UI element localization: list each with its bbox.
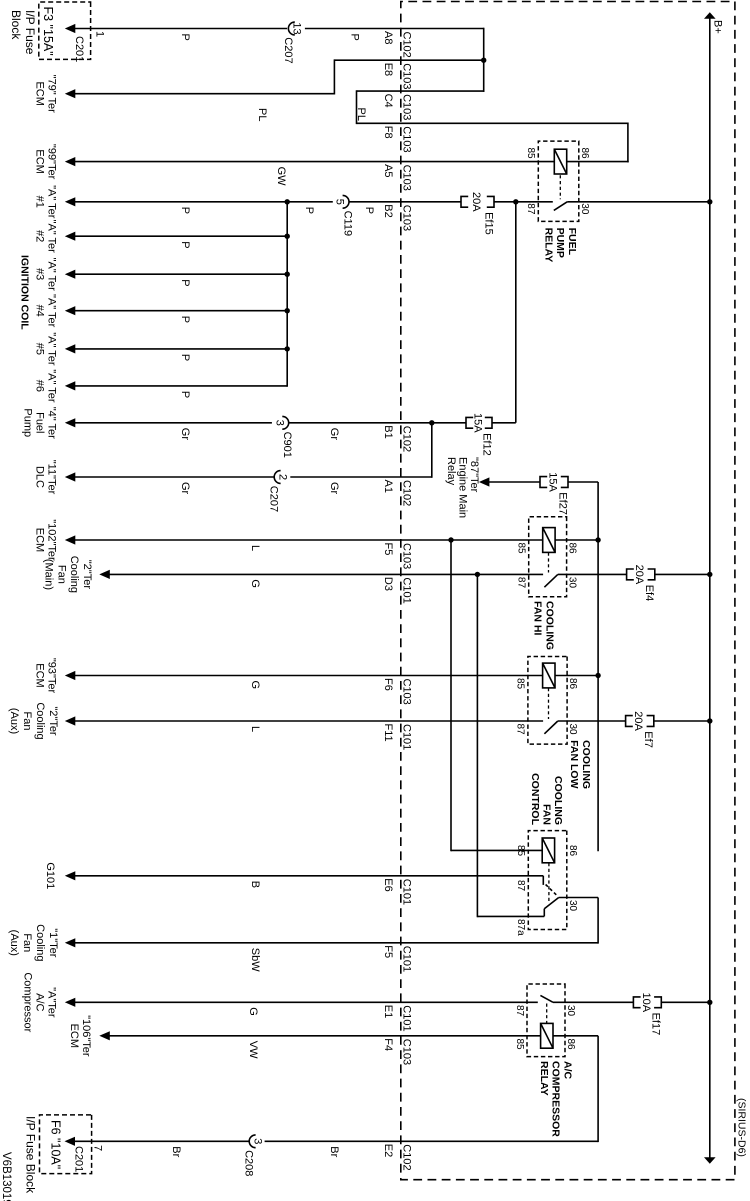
svg-text:V6B13019: V6B13019 xyxy=(0,1152,12,1201)
svg-text:VW: VW xyxy=(247,1041,259,1059)
crossing C102 pin B1 xyxy=(382,425,413,452)
svg-text:P: P xyxy=(303,207,315,214)
svg-text:P: P xyxy=(179,241,191,248)
svg-text:I/P Fuse Block: I/P Fuse Block xyxy=(24,1116,38,1194)
svg-text:"79" Ter: "79" Ter xyxy=(45,75,57,114)
svg-text:P: P xyxy=(179,279,191,286)
svg-text:#6: #6 xyxy=(34,380,46,392)
svg-text:C103: C103 xyxy=(400,205,412,231)
label FUEL PUMP RELAY xyxy=(542,228,578,263)
svg-text:13: 13 xyxy=(291,22,303,34)
wire P to ignition coil 6 xyxy=(74,385,288,387)
label "79" Ter ECM xyxy=(34,75,58,114)
label "102"Ter ECM xyxy=(34,519,58,561)
svg-text:Fan: Fan xyxy=(21,712,33,731)
label "99"Ter ECM xyxy=(34,144,58,180)
svg-text:C208: C208 xyxy=(243,1150,255,1176)
fuse Ef27 15A xyxy=(540,472,568,515)
svg-text:#5: #5 xyxy=(34,343,46,355)
svg-text:Gr: Gr xyxy=(328,482,340,495)
svg-text:D3: D3 xyxy=(382,577,394,591)
svg-text:G: G xyxy=(249,579,261,588)
svg-text:C101: C101 xyxy=(400,1005,412,1031)
svg-text:E8: E8 xyxy=(382,63,394,76)
a/c compressor relay dashed box xyxy=(527,984,565,1057)
label "87"Ter Engine Main Relay xyxy=(445,457,480,518)
wire P to ignition coil 4 xyxy=(74,310,288,312)
a/c relay coil-switch dashed link xyxy=(546,1004,548,1024)
cooling fan hi relay coil xyxy=(543,528,555,553)
svg-text:87: 87 xyxy=(516,577,527,589)
crossing C103 pin E8 xyxy=(382,63,413,90)
page border (dashed) xyxy=(401,2,735,1180)
svg-text:B2: B2 xyxy=(382,204,394,217)
cooling fan hi switch blade and 30 wire xyxy=(544,574,709,587)
svg-text:87: 87 xyxy=(525,203,536,215)
svg-text:F6: F6 xyxy=(382,678,394,691)
svg-text:85: 85 xyxy=(525,147,536,159)
svg-text:E2: E2 xyxy=(382,1144,394,1157)
svg-text:"A" Ter: "A" Ter xyxy=(45,294,57,328)
arrow to aux cooling fan terminal 1 xyxy=(65,938,76,947)
label COOLING FAN CONTROL xyxy=(529,773,564,825)
svg-text:85: 85 xyxy=(514,1039,525,1051)
junction dot net1/ECM79 xyxy=(481,58,486,63)
svg-text:L: L xyxy=(249,545,261,551)
svg-text:PL: PL xyxy=(256,108,268,121)
cooling fan control 87a wire to fan hi 87 branch xyxy=(477,574,544,917)
svg-text:30: 30 xyxy=(579,203,590,215)
svg-text:E6: E6 xyxy=(382,878,394,891)
svg-text:C102: C102 xyxy=(400,480,412,506)
junction dot relay 87 / fuel pump branch xyxy=(513,199,518,204)
svg-text:P: P xyxy=(179,316,191,323)
svg-text:(Aux): (Aux) xyxy=(8,708,20,734)
label "4" Ter Fuel Pump xyxy=(22,407,58,439)
svg-text:F5: F5 xyxy=(382,543,394,556)
wire G from fan hi 87 to main cooling fan xyxy=(108,573,543,575)
svg-text:(SIRIUS-D6): (SIRIUS-D6) xyxy=(736,1098,748,1157)
svg-text:CONTROL: CONTROL xyxy=(529,773,541,825)
svg-text:Pump: Pump xyxy=(22,408,34,437)
wire Gr from relay 87 junction to fuel pump xyxy=(74,202,516,423)
I/P fuse block F6 dashed box xyxy=(40,1115,92,1174)
svg-text:G: G xyxy=(247,1007,259,1016)
svg-text:"93"Ter: "93"Ter xyxy=(45,658,57,694)
svg-text:F5: F5 xyxy=(382,945,394,958)
junction dot ignition bus 3 xyxy=(285,272,290,277)
arrow to DLC terminal 11 xyxy=(65,472,76,481)
svg-text:Ef7: Ef7 xyxy=(642,731,654,748)
svg-text:C119: C119 xyxy=(342,211,354,236)
svg-text:15A: 15A xyxy=(472,413,484,433)
svg-text:RELAY: RELAY xyxy=(542,228,554,263)
cooling fan hi coil-switch dashed link xyxy=(548,553,550,573)
arrow to ECM terminal 102 xyxy=(65,535,76,544)
fuse Ef17 10A xyxy=(633,993,661,1036)
arrow to ignition coil 3 xyxy=(65,270,76,279)
crossing C103 pin F6 xyxy=(382,678,413,705)
wire P to ignition coil 3 xyxy=(74,273,288,275)
svg-text:20A: 20A xyxy=(470,192,482,212)
fuse Ef12 15A xyxy=(466,413,492,456)
junction dot fuel pump / DLC branch xyxy=(429,420,434,425)
connector C208 pin 3 xyxy=(243,1135,264,1176)
svg-text:C201: C201 xyxy=(73,36,85,62)
svg-text:P: P xyxy=(363,207,375,214)
svg-text:85: 85 xyxy=(515,845,526,857)
svg-text:B+: B+ xyxy=(712,20,724,34)
svg-text:#4: #4 xyxy=(34,305,46,317)
arrow to aux cooling fan terminal 2 xyxy=(65,716,76,725)
arrow to ECM terminal 79 xyxy=(65,89,76,98)
label "106"Ter ECM xyxy=(68,1015,92,1057)
svg-text:C103: C103 xyxy=(400,165,412,191)
svg-text:(Aux): (Aux) xyxy=(8,930,20,956)
connector C207 pin 13 xyxy=(282,22,303,63)
svg-text:P: P xyxy=(179,391,191,398)
cooling fan low coil-switch dashed link xyxy=(548,688,550,719)
label "A" Ter #6 xyxy=(34,369,58,403)
label "A" Ter #4 xyxy=(34,294,58,328)
wire Gr from fuel pump branch to DLC xyxy=(74,423,432,478)
wire PL to ECM 79 xyxy=(74,59,484,94)
arrow to ignition coil 5 xyxy=(65,344,76,353)
wire L from fan hi coil 85 to ECM 102 xyxy=(74,539,543,541)
svg-text:1: 1 xyxy=(94,31,106,37)
arrow to main cooling fan terminal 2 xyxy=(99,570,110,579)
wire P from C207 to fuse F3 (net1 vertical) xyxy=(74,28,484,30)
label "11"Ter DLC xyxy=(34,460,58,495)
svg-text:E1: E1 xyxy=(382,1005,394,1018)
svg-text:P: P xyxy=(179,207,191,214)
svg-text:C101: C101 xyxy=(400,946,412,972)
svg-text:ECM: ECM xyxy=(68,1024,80,1048)
svg-text:F6 "10A": F6 "10A" xyxy=(48,1120,62,1169)
svg-text:Gr: Gr xyxy=(328,428,340,441)
cooling fan hi relay dashed box xyxy=(529,517,567,597)
svg-text:"A" Ter: "A" Ter xyxy=(45,185,57,219)
svg-text:G: G xyxy=(249,681,261,690)
crossing C102 pin E2 xyxy=(382,1144,413,1171)
wire G from fan low coil 85 to ECM 93 xyxy=(74,675,543,677)
svg-text:A8: A8 xyxy=(382,31,394,44)
label "1"Ter Cooling Fan (Aux) xyxy=(8,924,59,961)
svg-text:C207: C207 xyxy=(282,37,294,63)
label "A" Ter #2 xyxy=(34,220,58,254)
B+ power rail xyxy=(704,12,716,1164)
cooling fan control switch blade dashed xyxy=(546,885,558,896)
svg-text:30: 30 xyxy=(567,724,578,736)
crossing C103 pin F4 xyxy=(382,1038,413,1065)
svg-text:Cooling: Cooling xyxy=(34,924,46,961)
label "A" Ter #3 xyxy=(34,258,58,292)
junction dot control 87a branch xyxy=(475,572,480,577)
svg-text:7: 7 xyxy=(92,1145,104,1151)
svg-text:C201: C201 xyxy=(72,1146,84,1172)
svg-text:P: P xyxy=(179,34,191,41)
svg-text:30: 30 xyxy=(565,1005,576,1017)
svg-text:5: 5 xyxy=(334,199,346,205)
svg-text:"99"Ter: "99"Ter xyxy=(45,144,57,180)
fuel pump relay dashed box xyxy=(538,141,579,221)
svg-text:G101: G101 xyxy=(44,862,56,889)
label "A"Ter A/C Compressor xyxy=(22,972,58,1032)
cooling fan control 30 wire xyxy=(559,898,598,944)
wire SbW from control 30 to aux cooling fan terminal 1 xyxy=(74,942,599,944)
svg-text:Ef17: Ef17 xyxy=(650,1013,662,1036)
svg-text:IGNITION COIL: IGNITION COIL xyxy=(19,255,31,330)
svg-text:C103: C103 xyxy=(400,679,412,705)
svg-text:"102"Ter: "102"Ter xyxy=(45,519,57,561)
arrow to ECM terminal 99 xyxy=(65,157,76,166)
fuel pump relay switch blade xyxy=(554,202,710,211)
wire P to ignition coil 2 xyxy=(74,235,288,237)
svg-text:86: 86 xyxy=(567,678,578,690)
wire Br from I/P fuse F6 to a/c relay coil 86 xyxy=(74,1036,598,1142)
junction dot cooling fan low coil feed xyxy=(595,673,600,678)
svg-text:Block: Block xyxy=(9,10,23,40)
svg-text:"2"Ter: "2"Ter xyxy=(81,560,93,590)
svg-text:Cooling: Cooling xyxy=(68,556,80,593)
svg-text:20A: 20A xyxy=(633,565,645,585)
svg-text:A/C: A/C xyxy=(34,993,46,1011)
svg-text:"A"Ter: "A"Ter xyxy=(45,987,57,1018)
svg-text:C102: C102 xyxy=(400,426,412,452)
wire net1 horizontal to E8/C4 branch xyxy=(483,28,485,92)
feed from engine main relay terminal 87 via fuse Ef27 xyxy=(489,482,598,851)
arrow into fuse block F3 xyxy=(65,24,76,33)
svg-text:FUEL: FUEL xyxy=(566,228,578,256)
svg-text:C102: C102 xyxy=(400,32,412,58)
connector C207 pin 2 xyxy=(268,471,289,512)
wire branch to cooling fan control coil 85 xyxy=(451,540,542,851)
junction dot on B+ rail for Ef7 xyxy=(707,718,712,723)
svg-text:F3 "15A": F3 "15A" xyxy=(41,7,55,56)
label I/P Fuse Block xyxy=(9,10,37,55)
svg-text:F8: F8 xyxy=(382,126,394,139)
arrow to ignition coil 4 xyxy=(65,306,76,315)
svg-text:SbW: SbW xyxy=(249,948,261,972)
svg-text:85: 85 xyxy=(515,678,526,690)
svg-text:C101: C101 xyxy=(400,577,412,603)
connector C119 pin 5 xyxy=(334,195,354,236)
svg-text:C103: C103 xyxy=(400,1039,412,1065)
svg-text:C901: C901 xyxy=(281,432,293,458)
svg-text:86: 86 xyxy=(579,147,590,159)
svg-text:F4: F4 xyxy=(382,1038,394,1051)
svg-text:A5: A5 xyxy=(382,164,394,177)
svg-text:"A" Ter: "A" Ter xyxy=(45,332,57,366)
crossing C103 pin C4 xyxy=(382,94,413,121)
arrow to ignition coil 1 xyxy=(65,197,76,206)
label "2"Ter Cooling Fan (Aux) xyxy=(8,702,59,739)
svg-text:C4: C4 xyxy=(382,94,394,108)
svg-text:I/P Fuse: I/P Fuse xyxy=(23,10,37,55)
label COOLING FAN HI xyxy=(532,601,556,650)
svg-text:COOLING: COOLING xyxy=(552,776,564,825)
arrow to ECM terminal 93 xyxy=(65,671,76,680)
svg-text:ECM: ECM xyxy=(34,528,46,552)
svg-text:C103: C103 xyxy=(400,94,412,120)
svg-text:(Main): (Main) xyxy=(43,559,55,590)
svg-text:Compressor: Compressor xyxy=(22,972,34,1032)
label A/C COMPRESSOR RELAY xyxy=(538,1061,574,1137)
junction dot control relay coil branch xyxy=(448,537,453,542)
svg-text:B1: B1 xyxy=(382,425,394,438)
svg-text:Cooling: Cooling xyxy=(34,702,46,739)
junction dot ignition bus 2 xyxy=(285,234,290,239)
arrow to ignition coil 2 xyxy=(65,232,76,241)
svg-text:A/C: A/C xyxy=(562,1061,574,1080)
svg-text:C101: C101 xyxy=(400,724,412,750)
svg-text:Fan: Fan xyxy=(21,933,33,952)
svg-text:"11"Ter: "11"Ter xyxy=(45,460,57,495)
junction dot cooling fan hi coil feed xyxy=(595,537,600,542)
svg-text:10A: 10A xyxy=(640,993,652,1013)
crossing C102 pin A1 xyxy=(382,480,413,507)
svg-text:PUMP: PUMP xyxy=(554,228,566,258)
svg-text:DLC: DLC xyxy=(34,466,46,488)
fuse Ef15 20A xyxy=(461,192,494,235)
svg-text:Fuel: Fuel xyxy=(34,412,46,433)
svg-text:C207: C207 xyxy=(268,486,280,512)
svg-text:C103: C103 xyxy=(400,126,412,152)
arrow to a/c compressor terminal A xyxy=(65,998,76,1007)
wire L from fan low 87 to aux cooling fan terminal 2 xyxy=(74,720,544,722)
svg-text:87: 87 xyxy=(514,1005,525,1017)
svg-text:FAN: FAN xyxy=(541,804,553,825)
junction dot ignition bus 5 xyxy=(285,346,290,351)
svg-text:#2: #2 xyxy=(34,230,46,242)
svg-text:"A" Ter: "A" Ter xyxy=(45,258,57,292)
svg-text:COOLING: COOLING xyxy=(580,740,592,789)
crossing C101 pin D3 xyxy=(382,577,413,604)
cooling fan hi coil 86 riser xyxy=(555,539,598,541)
cooling fan low relay coil xyxy=(543,663,555,688)
wire P from relay 87 to ignition coils xyxy=(74,201,553,203)
svg-text:15A: 15A xyxy=(547,472,559,492)
svg-text:Ef27: Ef27 xyxy=(556,492,568,515)
svg-text:"106"Ter: "106"Ter xyxy=(80,1015,92,1057)
svg-text:30: 30 xyxy=(567,577,578,589)
cooling fan low switch blade and 30 wire xyxy=(544,721,709,734)
a/c relay switch blade and 30 wire xyxy=(540,995,709,1002)
crossing C101 pin E6 xyxy=(382,878,413,905)
crossing C101 pin F5 (aux fan) xyxy=(382,945,413,972)
crossing C101 pin F11 xyxy=(382,724,413,751)
wire P to ignition coil 5 xyxy=(74,348,288,350)
svg-text:P: P xyxy=(179,354,191,361)
arrow to ground G101 xyxy=(65,871,76,880)
crossing C103 pin B2 xyxy=(382,204,413,231)
svg-text:C101: C101 xyxy=(400,879,412,905)
arrow from engine main relay xyxy=(479,477,490,486)
wire G from a/c relay 87 to compressor clutch xyxy=(74,1001,538,1003)
svg-text:30: 30 xyxy=(567,900,578,912)
svg-text:20A: 20A xyxy=(632,711,644,731)
fuel pump relay coil xyxy=(554,149,566,174)
junction dot ignition bus 1 xyxy=(285,199,290,204)
label "93"Ter ECM xyxy=(34,658,58,694)
cooling fan control relay coil xyxy=(542,838,554,863)
svg-text:Ef4: Ef4 xyxy=(643,585,655,602)
label "A" Ter #1 xyxy=(34,185,58,219)
crossing C103 pin A5 xyxy=(382,164,413,191)
svg-text:#3: #3 xyxy=(34,268,46,280)
svg-text:C103: C103 xyxy=(400,63,412,89)
svg-text:Fan: Fan xyxy=(55,565,67,584)
svg-text:Br: Br xyxy=(170,1146,182,1157)
svg-text:FAN LOW: FAN LOW xyxy=(568,740,580,788)
arrow to ECM terminal 106 xyxy=(99,1031,110,1040)
fuel pump relay coil-switch dashed link xyxy=(559,175,561,199)
svg-text:FAN HI: FAN HI xyxy=(532,601,544,636)
svg-text:Ef12: Ef12 xyxy=(480,433,492,456)
svg-text:Gr: Gr xyxy=(179,428,191,441)
svg-text:"87"Ter: "87"Ter xyxy=(468,457,480,493)
svg-text:C103: C103 xyxy=(400,543,412,569)
label COOLING FAN LOW xyxy=(568,740,592,789)
svg-text:#1: #1 xyxy=(34,196,46,208)
svg-text:"A" Ter: "A" Ter xyxy=(45,369,57,403)
svg-text:86: 86 xyxy=(567,845,578,857)
svg-text:Ef15: Ef15 xyxy=(482,212,494,235)
svg-text:87: 87 xyxy=(515,880,526,892)
cooling fan control coil-switch dashed link xyxy=(548,863,550,904)
crossing C101 pin E1 xyxy=(382,1005,413,1032)
svg-text:85: 85 xyxy=(516,543,527,555)
cooling fan control switch blade solid xyxy=(544,898,558,917)
label "2"Ter Cooling Fan (Main) xyxy=(43,556,93,593)
svg-text:COMPRESSOR: COMPRESSOR xyxy=(550,1061,562,1137)
svg-text:ECM: ECM xyxy=(34,663,46,687)
svg-text:87a: 87a xyxy=(515,919,526,936)
svg-text:ECM: ECM xyxy=(34,81,46,105)
fuse Ef7 20A xyxy=(626,711,655,748)
svg-text:3: 3 xyxy=(273,420,285,426)
svg-text:87: 87 xyxy=(515,724,526,736)
svg-text:Engine Main: Engine Main xyxy=(457,457,469,518)
svg-text:L: L xyxy=(249,726,261,732)
svg-text:COOLING: COOLING xyxy=(543,601,555,650)
cooling fan low relay dashed box xyxy=(528,657,567,745)
junction dot on B+ rail for Ef17 xyxy=(707,1000,712,1005)
arrow into fuse block F6 xyxy=(65,1137,76,1146)
svg-text:B: B xyxy=(249,881,261,888)
label "A" Ter #5 xyxy=(34,332,58,366)
svg-text:P: P xyxy=(349,34,361,41)
cooling fan low coil 86 riser xyxy=(555,675,598,677)
svg-text:C102: C102 xyxy=(400,1144,412,1170)
svg-text:2: 2 xyxy=(276,474,288,480)
crossing C103 pin F8 xyxy=(382,126,413,153)
connector C901 pin 3 xyxy=(273,416,293,457)
ignition coil bus xyxy=(286,202,288,387)
svg-text:A1: A1 xyxy=(382,480,394,493)
wire PL from net1 to fuel pump relay coil 86 xyxy=(357,90,629,162)
svg-text:86: 86 xyxy=(567,543,578,555)
svg-text:F11: F11 xyxy=(382,724,394,742)
svg-text:"1"Ter: "1"Ter xyxy=(47,928,59,958)
svg-text:86: 86 xyxy=(565,1039,576,1051)
wire GW from relay 85 to ECM 99 xyxy=(74,161,555,163)
svg-text:Br: Br xyxy=(328,1146,340,1157)
svg-text:"A" Ter: "A" Ter xyxy=(45,220,57,254)
svg-text:"4" Ter: "4" Ter xyxy=(45,407,57,439)
svg-text:RELAY: RELAY xyxy=(538,1061,550,1096)
svg-text:GW: GW xyxy=(275,167,287,187)
